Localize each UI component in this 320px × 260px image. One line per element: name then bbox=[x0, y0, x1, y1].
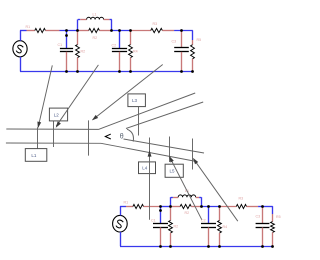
svg-text:L1: L1 bbox=[93, 13, 97, 17]
svg-text:R5: R5 bbox=[197, 38, 202, 42]
svg-text:L5: L5 bbox=[169, 169, 175, 174]
svg-text:L1: L1 bbox=[31, 153, 37, 158]
svg-text:C2: C2 bbox=[112, 44, 117, 48]
svg-text:θ: θ bbox=[120, 134, 124, 141]
svg-text:C3: C3 bbox=[256, 215, 261, 219]
svg-text:C3: C3 bbox=[172, 40, 177, 44]
svg-text:R3: R3 bbox=[153, 22, 158, 26]
svg-text:R1: R1 bbox=[124, 201, 129, 205]
svg-text:R2: R2 bbox=[81, 50, 86, 54]
svg-text:L2: L2 bbox=[54, 112, 60, 117]
svg-text:L3: L3 bbox=[132, 98, 138, 103]
svg-text:R2: R2 bbox=[174, 225, 179, 229]
svg-text:R5: R5 bbox=[276, 215, 281, 219]
svg-text:R1: R1 bbox=[26, 25, 31, 29]
svg-text:R2: R2 bbox=[93, 36, 98, 40]
svg-text:L4: L4 bbox=[142, 166, 148, 171]
svg-text:C1: C1 bbox=[58, 43, 63, 47]
svg-text:R4: R4 bbox=[133, 50, 138, 54]
svg-text:C1: C1 bbox=[151, 219, 156, 223]
svg-text:R3: R3 bbox=[239, 196, 244, 200]
svg-text:R4: R4 bbox=[223, 225, 228, 229]
svg-text:R2: R2 bbox=[185, 211, 190, 215]
